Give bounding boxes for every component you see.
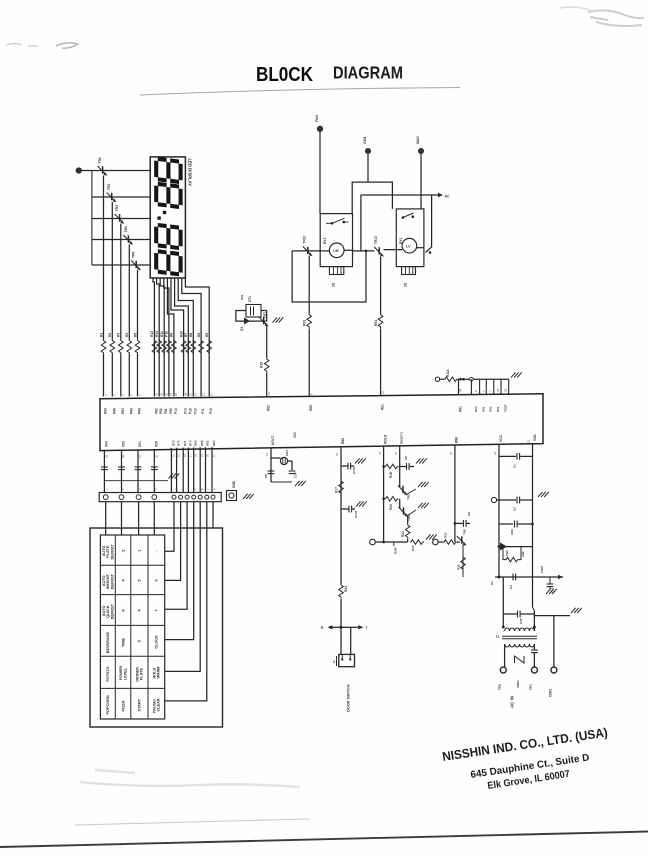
svg-text:START: START (138, 698, 142, 711)
svg-text:VSS: VSS (533, 434, 537, 441)
svg-text:TR1: TR1 (98, 157, 102, 164)
svg-text:POPCORN: POPCORN (106, 695, 110, 714)
svg-text:21: 21 (169, 392, 173, 396)
svg-text:DIAGRAM: DIAGRAM (333, 63, 403, 83)
svg-text:R19: R19 (457, 564, 461, 570)
svg-text:A: A (321, 625, 324, 630)
svg-text:30: 30 (335, 452, 339, 456)
svg-text:DEFRST: DEFRST (110, 544, 114, 560)
svg-text:19: 19 (189, 392, 193, 396)
svg-text:R21: R21 (444, 532, 448, 538)
svg-text:R88: R88 (455, 437, 459, 443)
svg-text:ZNR1: ZNR1 (516, 680, 520, 688)
svg-text:KOUT: KOUT (271, 436, 275, 445)
svg-text:XT1: XT1 (248, 296, 252, 302)
svg-text:16: 16 (194, 392, 198, 396)
svg-text:C15: C15 (519, 618, 523, 624)
svg-text:TR5: TR5 (407, 494, 411, 500)
svg-text:TR5: TR5 (132, 251, 136, 258)
svg-text:P82: P82 (154, 408, 158, 414)
svg-text:K03: K03 (105, 441, 109, 447)
svg-text:44: 44 (493, 451, 497, 455)
svg-text:DEFRST: DEFRST (110, 573, 114, 589)
svg-text:TIME: TIME (121, 638, 125, 648)
svg-text:D1: D1 (490, 581, 494, 585)
svg-text:R51: R51 (374, 320, 378, 326)
svg-text:TR2: TR2 (107, 183, 111, 190)
svg-text:R01: R01 (496, 406, 500, 412)
svg-text:R3: R3 (117, 333, 121, 337)
svg-text:36: 36 (496, 388, 500, 392)
svg-text:6: 6 (155, 579, 159, 581)
svg-text:R91: R91 (458, 406, 462, 412)
svg-text:R24: R24 (344, 586, 348, 592)
svg-text:34: 34 (378, 451, 382, 455)
svg-text:2G: 2G (332, 282, 336, 287)
svg-text:39: 39 (122, 454, 126, 458)
svg-text:R48: R48 (112, 408, 116, 414)
svg-text:P13: P13 (193, 408, 197, 414)
svg-text:BL0CK: BL0CK (256, 64, 313, 86)
svg-text:R7: R7 (184, 333, 188, 337)
svg-text:R63: R63 (194, 440, 198, 446)
svg-text:P90: P90 (169, 408, 173, 414)
svg-text:CR1: CR1 (285, 450, 289, 456)
svg-text:AC: AC (445, 195, 450, 199)
svg-text:38: 38 (155, 454, 159, 458)
svg-text:R6: R6 (197, 333, 201, 337)
svg-text:TP2: TP2 (498, 684, 502, 690)
svg-text:LM: LM (333, 249, 338, 253)
svg-text:R86: R86 (309, 405, 313, 411)
svg-text:R70: R70 (188, 440, 192, 446)
svg-text:AC !N: AC !N (510, 696, 515, 708)
svg-text:23: 23 (394, 451, 398, 455)
svg-text:RESET1: RESET1 (400, 432, 404, 444)
svg-text:P10: P10 (209, 408, 213, 414)
svg-text:C17: C17 (551, 587, 555, 593)
svg-text:TEST: TEST (503, 404, 507, 412)
svg-text:DEFRST: DEFRST (110, 603, 114, 619)
svg-text:12: 12 (210, 392, 214, 396)
svg-text:C0M: C0M (363, 137, 367, 144)
svg-text:R15: R15 (260, 362, 264, 368)
svg-text:R114: R114 (446, 369, 450, 377)
svg-text:R23: R23 (411, 545, 415, 551)
svg-text:R62: R62 (206, 440, 210, 446)
svg-text:CLEAR: CLEAR (157, 698, 161, 711)
svg-text:13: 13 (201, 392, 205, 396)
svg-text:R10: R10 (179, 331, 183, 337)
svg-text:R81: R81 (381, 404, 385, 410)
svg-text:R66: R66 (200, 440, 204, 446)
svg-text:C5: C5 (264, 474, 268, 478)
svg-text:R1: R1 (99, 333, 103, 337)
svg-text:BEVERAGE: BEVERAGE (106, 631, 110, 653)
svg-text:ZD3: ZD3 (510, 529, 514, 535)
svg-text:11: 11 (267, 392, 271, 395)
svg-text:5: 5 (138, 579, 142, 581)
svg-text:R43: R43 (104, 408, 108, 414)
svg-text:21: 21 (527, 439, 531, 443)
svg-text:R50: R50 (474, 406, 478, 412)
svg-text:1: 1 (138, 550, 142, 552)
svg-text:TP1: TP1 (529, 684, 533, 690)
svg-text:R18: R18 (389, 472, 393, 478)
svg-text:P10: P10 (165, 331, 169, 337)
svg-text:POTATO: POTATO (106, 666, 110, 681)
svg-text:2: 2 (121, 550, 125, 552)
svg-text:C102: C102 (352, 466, 356, 474)
svg-text:R5: R5 (133, 333, 137, 337)
svg-text:MAG: MAG (416, 136, 420, 144)
svg-text:R107: R107 (394, 547, 398, 554)
svg-text:CLOCK: CLOCK (155, 635, 159, 649)
svg-text:R11: R11 (160, 331, 164, 337)
svg-text:TR4: TR4 (505, 550, 509, 556)
svg-text:C14: C14 (294, 472, 298, 478)
svg-text:LV: LV (406, 245, 411, 249)
svg-text:CN01: CN01 (549, 689, 553, 697)
svg-text:CN07: CN07 (540, 565, 544, 573)
svg-text:R22: R22 (401, 531, 405, 537)
svg-text:K52: K52 (122, 441, 126, 447)
svg-text:TR9: TR9 (463, 529, 467, 535)
svg-text:PIZZA: PIZZA (121, 700, 125, 711)
svg-text:R4: R4 (125, 333, 129, 337)
svg-text:P16: P16 (188, 408, 192, 414)
svg-text:25: 25 (165, 392, 169, 396)
svg-text:23: 23 (155, 392, 159, 396)
svg-text:GND: GND (232, 480, 236, 488)
svg-text:PLATE: PLATE (140, 667, 144, 680)
svg-text:K56: K56 (155, 441, 159, 447)
svg-text:K02: K02 (293, 432, 297, 438)
svg-text:FAN: FAN (315, 115, 319, 122)
svg-text:P13: P13 (174, 408, 178, 414)
svg-text:9: 9 (138, 640, 142, 642)
svg-text:C2: C2 (513, 507, 517, 511)
svg-text:TR4: TR4 (124, 226, 128, 233)
svg-text:K51: K51 (482, 406, 486, 412)
svg-text:R20: R20 (389, 504, 393, 510)
svg-text:7: 7 (155, 609, 159, 611)
svg-text:R9: R9 (170, 333, 174, 337)
svg-text:TR10: TR10 (303, 235, 307, 243)
svg-text:30: 30 (503, 388, 507, 392)
svg-text:28: 28 (184, 392, 188, 396)
svg-text:R31: R31 (240, 294, 244, 300)
svg-text:37: 37 (138, 454, 142, 458)
svg-text:13: 13 (265, 452, 269, 456)
svg-text:28: 28 (105, 454, 109, 458)
svg-text:T1: T1 (496, 635, 500, 639)
svg-text:24: 24 (160, 392, 164, 396)
svg-text:22: 22 (174, 392, 178, 396)
svg-text:R33: R33 (303, 320, 307, 326)
svg-text:P81: P81 (164, 408, 168, 414)
svg-text:C4: C4 (509, 585, 513, 589)
svg-text:R86: R86 (341, 438, 345, 444)
svg-text:8: 8 (121, 609, 125, 611)
svg-text:LED D!SPLAY: LED D!SPLAY (188, 159, 193, 187)
svg-text:TR13: TR13 (374, 236, 378, 244)
svg-text:HOLD: HOLD (383, 434, 387, 444)
svg-text:R5: R5 (205, 333, 209, 337)
svg-text:R13: R13 (155, 331, 159, 337)
svg-text:R75: R75 (171, 440, 175, 446)
svg-text:R60: R60 (212, 440, 216, 446)
svg-text:C6: C6 (404, 456, 408, 460)
svg-text:P82: P82 (159, 408, 163, 414)
svg-text:35: 35 (449, 451, 453, 455)
svg-text:C8: C8 (467, 512, 471, 516)
svg-text:R8: R8 (189, 333, 193, 337)
svg-text:R82: R82 (267, 405, 271, 411)
svg-text:R12: R12 (150, 331, 154, 337)
svg-text:R17: R17 (335, 487, 339, 493)
svg-text:VCC: VCC (499, 434, 503, 442)
svg-text:D3: D3 (240, 327, 244, 331)
svg-text:WARM: WARM (157, 667, 161, 679)
svg-text:40: 40 (458, 388, 462, 392)
svg-text:R46: R46 (138, 408, 142, 414)
svg-text:P11: P11 (201, 408, 205, 414)
svg-text:TR3: TR3 (115, 205, 119, 212)
svg-text:ZD2: ZD2 (521, 551, 525, 557)
svg-text:LEVEL: LEVEL (123, 667, 127, 680)
svg-text:RY1: RY1 (323, 238, 327, 244)
svg-text:10: 10 (381, 390, 385, 394)
svg-text:R72: R72 (177, 440, 181, 446)
svg-text:P13: P13 (184, 408, 188, 414)
svg-text:R71: R71 (183, 440, 187, 446)
svg-text:K01: K01 (138, 441, 142, 447)
svg-text:R2: R2 (108, 333, 112, 337)
svg-text:TR7: TR7 (263, 312, 267, 318)
svg-text:R49: R49 (129, 408, 133, 414)
svg-text:C1: C1 (513, 464, 517, 468)
svg-text:2G: 2G (404, 282, 408, 287)
svg-text:R63: R63 (121, 408, 125, 414)
svg-text:C103: C103 (354, 510, 358, 518)
svg-text:DOOR SW!TCH: DOOR SW!TCH (347, 684, 351, 712)
svg-text:K52: K52 (489, 406, 493, 412)
